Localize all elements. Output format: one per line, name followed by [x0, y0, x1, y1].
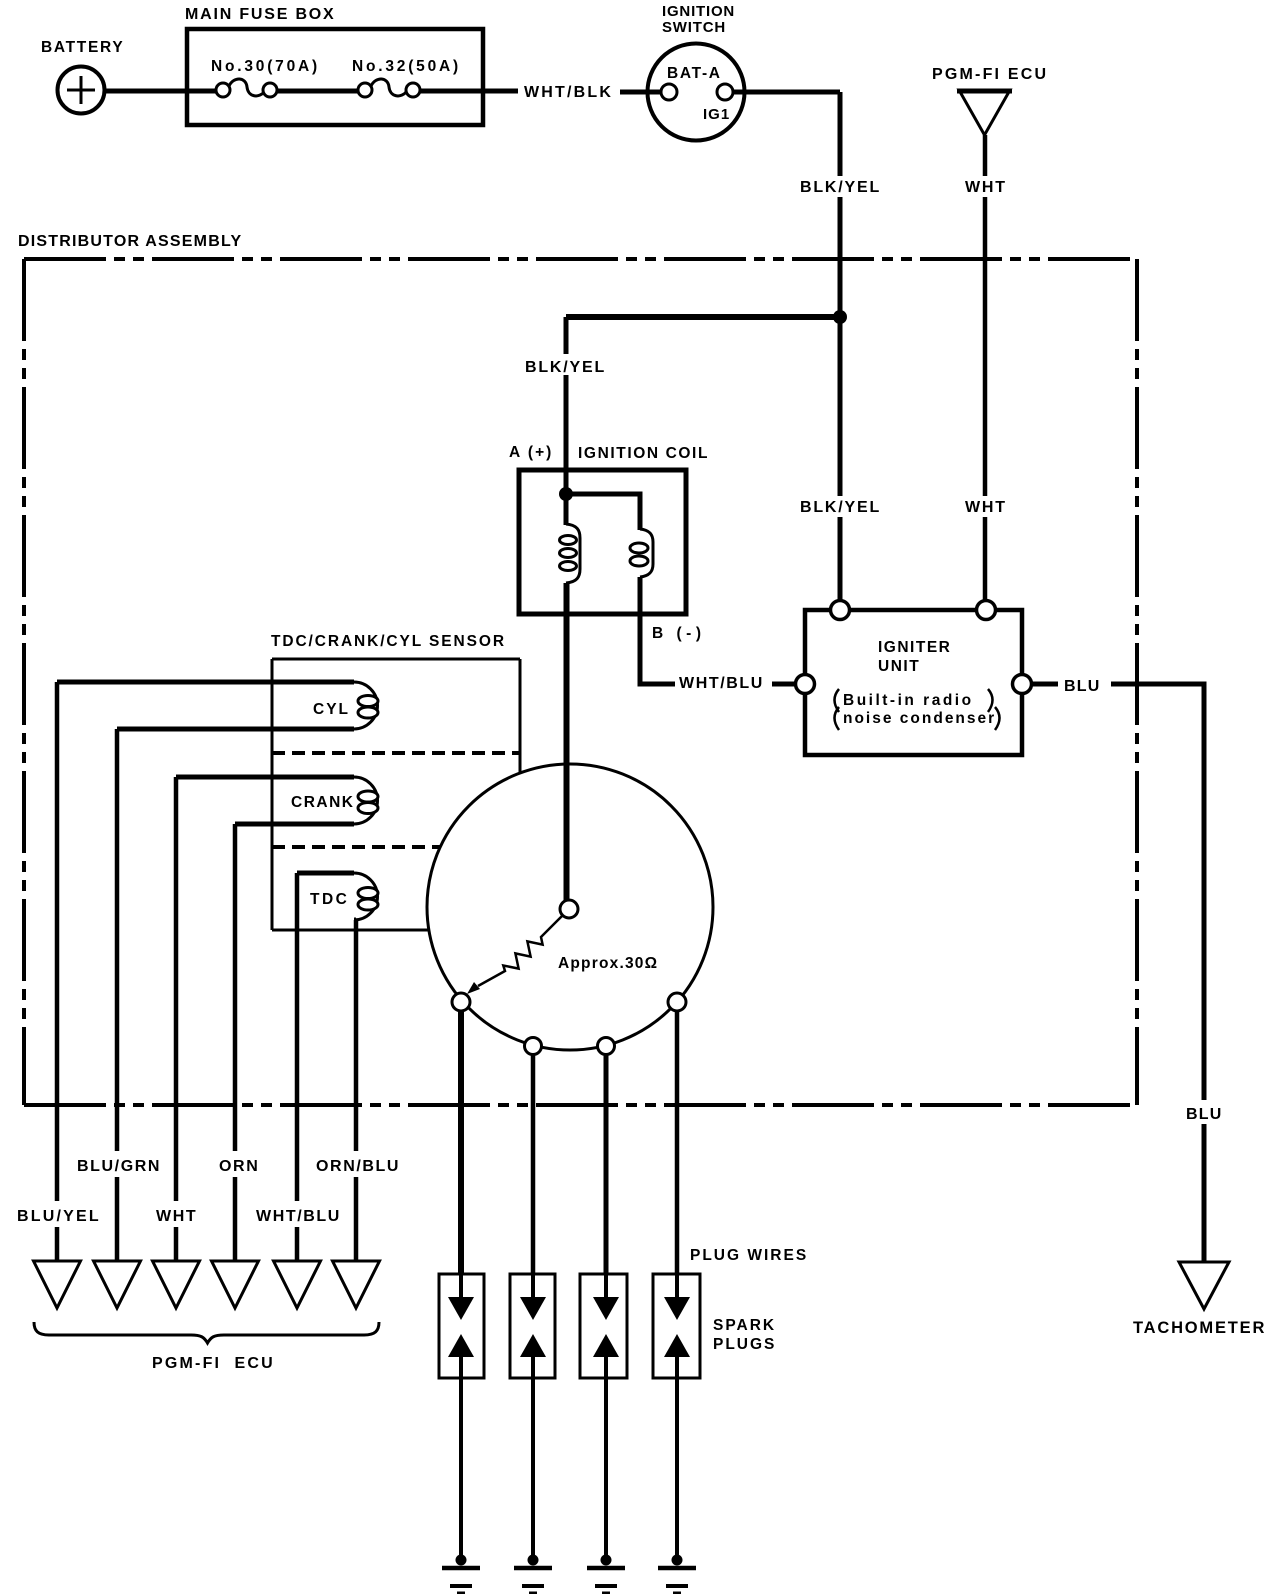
svg-text:DISTRIBUTOR ASSEMBLY: DISTRIBUTOR ASSEMBLY	[18, 233, 242, 250]
svg-text:WHT/BLU: WHT/BLU	[679, 675, 764, 692]
svg-text:PLUGS: PLUGS	[713, 1336, 776, 1353]
svg-text:No.30(70A): No.30(70A)	[211, 58, 320, 75]
svg-text:IGNITION: IGNITION	[662, 3, 735, 20]
svg-text:ORN: ORN	[219, 1158, 259, 1175]
svg-text:B (-): B (-)	[652, 625, 706, 642]
svg-text:SWITCH: SWITCH	[662, 19, 726, 36]
svg-text:BLU: BLU	[1186, 1106, 1222, 1123]
svg-text:noise condenser: noise condenser	[843, 710, 996, 727]
svg-text:IG1: IG1	[703, 106, 730, 123]
svg-text:BLU/YEL: BLU/YEL	[17, 1208, 101, 1225]
svg-text:BLK/YEL: BLK/YEL	[800, 179, 881, 196]
svg-text:BAT-A: BAT-A	[667, 65, 722, 82]
svg-text:CYL: CYL	[313, 701, 350, 718]
svg-text:Built-in radio: Built-in radio	[843, 692, 974, 709]
svg-text:TDC: TDC	[310, 891, 349, 908]
svg-text:BLU: BLU	[1064, 678, 1100, 695]
svg-text:PGM-FI ECU: PGM-FI ECU	[152, 1355, 275, 1372]
svg-text:ORN/BLU: ORN/BLU	[316, 1158, 400, 1175]
svg-text:IGNITION COIL: IGNITION COIL	[578, 445, 709, 462]
svg-text:A (+): A (+)	[509, 444, 553, 461]
svg-text:BLK/YEL: BLK/YEL	[800, 499, 881, 516]
svg-text:WHT/BLK: WHT/BLK	[524, 84, 613, 101]
svg-text:PGM-FI ECU: PGM-FI ECU	[932, 66, 1048, 83]
svg-text:MAIN FUSE BOX: MAIN FUSE BOX	[185, 6, 336, 23]
svg-text:No.32(50A): No.32(50A)	[352, 58, 461, 75]
svg-text:Approx.30Ω: Approx.30Ω	[558, 955, 658, 972]
svg-text:BLU/GRN: BLU/GRN	[77, 1158, 161, 1175]
svg-text:WHT: WHT	[965, 179, 1007, 196]
svg-text:BATTERY: BATTERY	[41, 39, 124, 56]
svg-text:WHT: WHT	[156, 1208, 197, 1225]
svg-text:CRANK: CRANK	[291, 794, 354, 811]
svg-text:BLK/YEL: BLK/YEL	[525, 359, 606, 376]
svg-text:SPARK: SPARK	[713, 1317, 776, 1334]
svg-text:WHT/BLU: WHT/BLU	[256, 1208, 341, 1225]
svg-text:PLUG WIRES: PLUG WIRES	[690, 1247, 808, 1264]
svg-text:WHT: WHT	[965, 499, 1007, 516]
svg-text:TACHOMETER: TACHOMETER	[1133, 1319, 1266, 1337]
svg-text:TDC/CRANK/CYL SENSOR: TDC/CRANK/CYL SENSOR	[271, 633, 506, 650]
svg-text:UNIT: UNIT	[878, 658, 920, 675]
svg-text:IGNITER: IGNITER	[878, 639, 951, 656]
